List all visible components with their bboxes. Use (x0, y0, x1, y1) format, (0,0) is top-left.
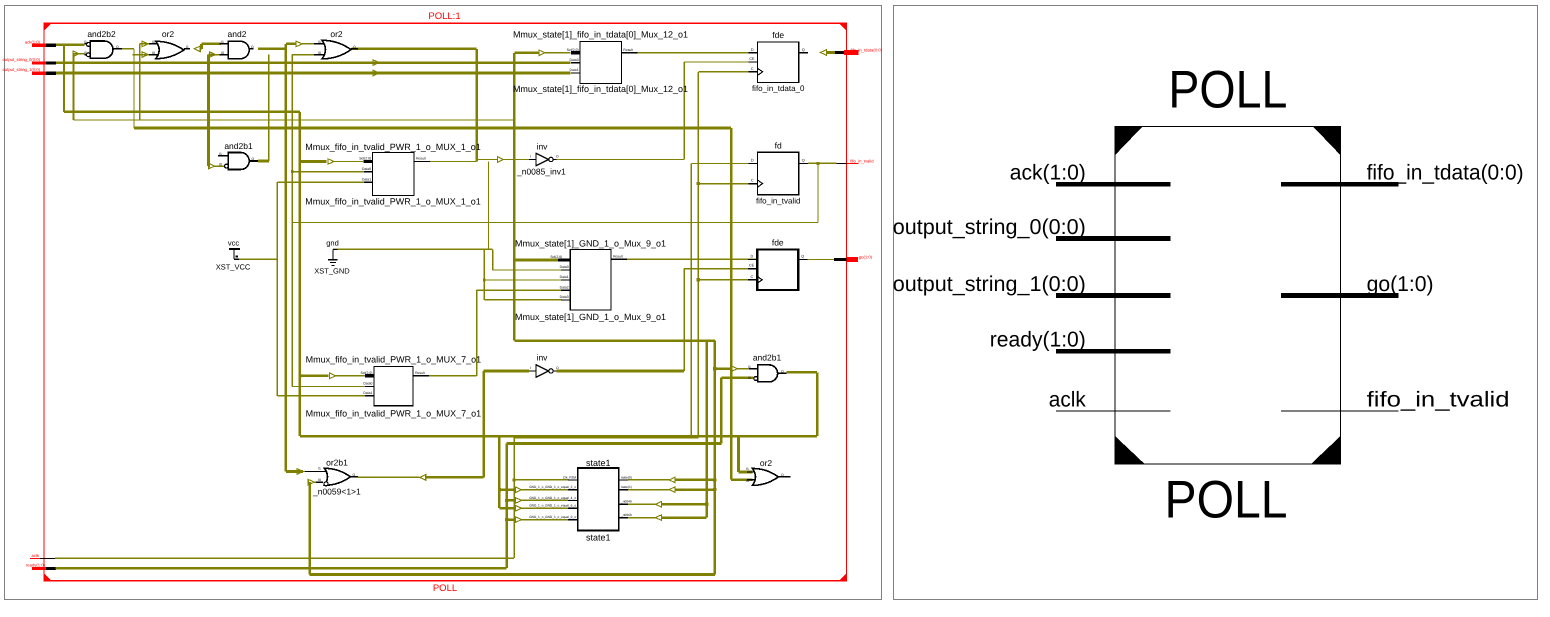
wire (504, 159, 530, 161)
corner notch top-left (1115, 127, 1142, 156)
svg-text:or2: or2 (330, 29, 343, 39)
svg-text:fifo_in_tvalid: fifo_in_tvalid (1367, 387, 1510, 411)
wire (737, 436, 740, 472)
svg-text:I1: I1 (84, 40, 87, 44)
svg-text:Sel(2:0): Sel(2:0) (567, 48, 579, 52)
wire (314, 481, 323, 483)
wire (628, 489, 669, 491)
svg-text:Data0: Data0 (362, 167, 371, 171)
wire (514, 339, 714, 342)
wire (122, 48, 134, 50)
wire (291, 55, 293, 223)
wire (482, 371, 485, 477)
svg-text:I: I (530, 366, 531, 370)
svg-text:Q: Q (802, 159, 805, 163)
wire (638, 52, 758, 54)
wire (292, 171, 363, 173)
svg-text:Mmux_state[1]_fifo_in_tdata[0]: Mmux_state[1]_fifo_in_tdata[0]_Mux_12_o1 (513, 84, 688, 94)
wire (303, 471, 324, 473)
wire (498, 436, 501, 508)
wire (522, 489, 569, 491)
svg-text:aclk: aclk (32, 553, 40, 558)
wire (202, 43, 222, 46)
wire (302, 43, 319, 45)
svg-text:CE: CE (749, 264, 755, 268)
svg-text:Clk_FSM: Clk_FSM (563, 475, 576, 479)
wire (720, 378, 723, 444)
svg-text:I0: I0 (219, 162, 222, 166)
svg-text:Q: Q (801, 255, 804, 259)
svg-text:output_string_1(0:0): output_string_1(0:0) (3, 67, 41, 72)
svg-text:inv: inv (537, 141, 549, 151)
svg-text:_n0059<1>1: _n0059<1>1 (312, 487, 361, 497)
wire or2 out to and2 I1 (194, 46, 200, 52)
svg-text:ready(1:0): ready(1:0) (26, 563, 46, 568)
svg-text:I0: I0 (748, 376, 751, 380)
svg-text:Data0: Data0 (560, 265, 569, 269)
wire (808, 162, 837, 164)
svg-text:Data2: Data2 (560, 285, 569, 289)
mux Mmux_state[1]_fifo_in_tdata[0]_Mux_12_o1 (580, 42, 621, 84)
svg-text:or2: or2 (760, 458, 773, 468)
wire (258, 47, 286, 50)
wire (426, 476, 484, 479)
wire (56, 567, 507, 570)
svg-text:D: D (751, 159, 754, 163)
pin output_string_1(0:0) (1056, 293, 1170, 298)
wire (513, 438, 515, 559)
svg-text:and2b1: and2b1 (224, 141, 253, 151)
wire (134, 127, 731, 130)
svg-text:O: O (556, 366, 559, 370)
fd flip-flop fifo_in_tvalid (758, 152, 799, 194)
wire (662, 516, 707, 519)
wire (308, 482, 311, 574)
svg-text:Mmux_state[1]_GND_1_o_Mux_9_o1: Mmux_state[1]_GND_1_o_Mux_9_o1 (515, 238, 666, 248)
wire (698, 279, 757, 281)
svg-text:aclk: aclk (1049, 387, 1086, 411)
wire (477, 289, 562, 291)
wire (215, 165, 225, 167)
wire (488, 162, 490, 250)
wire (56, 61, 571, 64)
svg-text:or2: or2 (162, 29, 175, 39)
svg-text:I1: I1 (221, 40, 224, 44)
wire (628, 517, 656, 519)
wire (513, 53, 516, 341)
wire (209, 165, 211, 168)
wire (721, 376, 753, 379)
right panel frame (894, 6, 1538, 600)
svg-text:O: O (781, 369, 784, 373)
wire (514, 51, 539, 54)
svg-text:state1: state1 (586, 533, 611, 543)
wire (484, 279, 561, 281)
svg-text:C: C (751, 67, 754, 71)
svg-text:D: D (750, 255, 753, 259)
wire (507, 442, 722, 445)
wire (74, 119, 516, 121)
svg-text:fifo_in_tvalid: fifo_in_tvalid (756, 196, 800, 205)
wire (492, 249, 494, 270)
wire (74, 53, 85, 55)
wire (786, 371, 817, 374)
wire (705, 341, 708, 518)
wire (499, 488, 515, 491)
svg-text:I0: I0 (221, 51, 224, 55)
svg-text:I0: I0 (152, 51, 155, 55)
pin ready(1:0) (1056, 349, 1170, 354)
svg-text:fde: fde (772, 237, 784, 247)
wire (310, 573, 715, 576)
wire (505, 444, 508, 569)
wire (139, 44, 141, 120)
svg-text:fd: fd (775, 140, 782, 150)
wire (292, 222, 818, 224)
wire (730, 128, 733, 480)
wire (698, 183, 757, 185)
corner notch bottom-left (1115, 436, 1145, 464)
wire (557, 159, 685, 161)
wire (268, 55, 270, 161)
wire (276, 182, 278, 396)
wire (358, 476, 420, 478)
wire (292, 386, 365, 388)
POLL block symbol body (1115, 127, 1341, 464)
svg-text:ack(1:0): ack(1:0) (1010, 161, 1086, 185)
wire (207, 55, 210, 167)
svg-text:XST_VCC: XST_VCC (216, 262, 251, 271)
svg-text:Data0: Data0 (570, 58, 579, 62)
svg-text:and2b1: and2b1 (753, 353, 782, 363)
wire (286, 43, 296, 46)
wire (291, 223, 293, 387)
wire (56, 43, 84, 46)
svg-text:Mmux_state[1]_fifo_in_tdata[0]: Mmux_state[1]_fifo_in_tdata[0]_Mux_12_o1 (513, 30, 688, 40)
svg-text:D: D (751, 48, 754, 52)
svg-text:O: O (556, 155, 559, 159)
svg-text:I1: I1 (748, 365, 751, 369)
wire (300, 435, 817, 438)
svg-text:O: O (116, 45, 119, 49)
svg-text:I0: I0 (318, 51, 321, 55)
wire (300, 160, 327, 163)
svg-text:Mmux_fifo_in_tvalid_PWR_1_o_MU: Mmux_fifo_in_tvalid_PWR_1_o_MUX_7_o1 (306, 354, 482, 364)
svg-text:I0: I0 (84, 51, 87, 55)
wire (475, 49, 478, 162)
wire (334, 161, 363, 163)
output port fifo_in_tdata(0:0) (820, 50, 826, 56)
wire (715, 367, 732, 370)
svg-text:Result: Result (416, 157, 426, 161)
svg-text:state1: state1 (586, 458, 611, 468)
pin output_string_0(0:0) (1056, 236, 1170, 241)
svg-text:O: O (186, 45, 189, 49)
svg-text:Result: Result (623, 48, 633, 52)
svg-text:Data1: Data1 (363, 391, 372, 395)
output port fifo_in_tvalid (837, 162, 847, 164)
wire (277, 395, 365, 397)
mux Mmux_fifo_in_tvalid_PWR_1_o_MUX_7_o1 (374, 367, 413, 406)
svg-text:O: O (251, 45, 254, 49)
svg-text:gnd: gnd (326, 239, 339, 248)
corner notch bottom-right (1311, 436, 1341, 464)
wire (627, 258, 757, 260)
wire (684, 61, 758, 63)
svg-text:vcc: vcc (228, 238, 240, 247)
wire (514, 479, 568, 481)
wire (476, 160, 478, 162)
wire (200, 44, 203, 49)
fde flip-flop fifo_in_tdata_0 (758, 42, 799, 83)
svg-text:output_string_1(0:0): output_string_1(0:0) (893, 272, 1086, 296)
svg-text:Data1: Data1 (570, 68, 579, 72)
wire (477, 159, 497, 161)
svg-text:POLL: POLL (1165, 471, 1288, 530)
svg-text:and2b2: and2b2 (87, 29, 116, 39)
wire (484, 299, 561, 301)
svg-text:Q: Q (802, 48, 805, 52)
wire (690, 164, 692, 438)
state1 FSM block (578, 468, 619, 531)
wire (299, 112, 302, 436)
wire (292, 54, 319, 56)
svg-text:POLL:1: POLL:1 (428, 11, 460, 22)
wire (522, 507, 569, 509)
svg-text:O: O (353, 45, 356, 49)
svg-text:GND_1_o_GND_1_o_equal_4_o: GND_1_o_GND_1_o_equal_4_o (529, 496, 576, 500)
wire (798, 259, 834, 261)
svg-text:C: C (750, 275, 753, 279)
output port go(1:0) (834, 258, 847, 261)
svg-text:Mmux_fifo_in_tvalid_PWR_1_o_MU: Mmux_fifo_in_tvalid_PWR_1_o_MUX_7_o1 (306, 409, 482, 419)
wire (300, 374, 329, 377)
left panel frame (5, 6, 882, 600)
wire (413, 375, 477, 377)
wire (683, 62, 685, 160)
wire (499, 507, 515, 510)
wire (514, 437, 698, 439)
svg-text:XST_GND: XST_GND (314, 267, 350, 276)
wire (522, 499, 569, 501)
corner notch top-right (1313, 127, 1340, 156)
wire (64, 111, 300, 114)
pin fifo_in_tvalid (1281, 410, 1399, 412)
sheet border POLL:1 (44, 23, 847, 581)
fde flip-flop go (757, 249, 798, 290)
wire (55, 557, 514, 559)
wire (731, 478, 752, 481)
wire (333, 248, 493, 250)
wire (675, 479, 715, 482)
svg-text:I0: I0 (318, 478, 321, 482)
wire (507, 518, 516, 521)
wire (209, 53, 215, 56)
svg-text:Data1: Data1 (560, 275, 569, 279)
wire (675, 488, 715, 491)
wire (684, 268, 757, 270)
pin aclk (1056, 410, 1170, 412)
svg-text:Mmux_fifo_in_tvalid_PWR_1_o_MU: Mmux_fifo_in_tvalid_PWR_1_o_MUX_1_o1 (305, 142, 481, 152)
wire (545, 52, 571, 54)
svg-text:Data1: Data1 (362, 177, 371, 181)
svg-text:Result: Result (415, 371, 425, 375)
svg-text:I0: I0 (746, 479, 749, 483)
svg-text:output_string_0(0:0): output_string_0(0:0) (3, 57, 41, 62)
wire (737, 368, 757, 370)
svg-text:fde: fde (772, 30, 784, 40)
svg-text:state(1): state(1) (621, 485, 632, 489)
wire (713, 341, 716, 575)
svg-text:GND_1_o_GND_1_o_equal_9_o: GND_1_o_GND_1_o_equal_9_o (529, 515, 576, 519)
svg-text:output_string_0(0:0): output_string_0(0:0) (893, 215, 1086, 239)
wire (132, 54, 149, 56)
svg-text:fifo_in_tdata(0:0): fifo_in_tdata(0:0) (1367, 161, 1524, 185)
svg-text:Data0: Data0 (363, 382, 372, 386)
wire (628, 503, 656, 505)
svg-text:I: I (530, 155, 531, 159)
svg-text:CE: CE (749, 57, 755, 61)
wire (507, 499, 516, 502)
wire (56, 72, 571, 75)
wire (691, 163, 757, 165)
svg-text:GND_1_o_GND_1_o_equal_6_o: GND_1_o_GND_1_o_equal_6_o (529, 504, 576, 508)
svg-text:POLL: POLL (1168, 61, 1287, 120)
svg-text:_n0049: _n0049 (620, 500, 632, 504)
pin go(1:0) (1281, 293, 1399, 298)
wire (739, 471, 753, 474)
wire (697, 72, 699, 438)
wire (698, 71, 757, 73)
svg-text:and2: and2 (228, 29, 247, 39)
svg-text:inv: inv (537, 352, 549, 362)
svg-text:state(0): state(0) (621, 475, 632, 479)
mux Mmux_state[1]_GND_1_o_Mux_9_o1 (570, 250, 611, 311)
wire (336, 375, 365, 377)
svg-text:I1: I1 (318, 467, 321, 471)
svg-text:or2b1: or2b1 (326, 458, 348, 468)
wire (484, 370, 529, 373)
svg-text:Sel(2:0): Sel(2:0) (550, 255, 562, 259)
svg-text:go(1:0): go(1:0) (859, 255, 873, 260)
wire (239, 258, 277, 260)
svg-text:I1: I1 (746, 467, 749, 471)
mux Mmux_fifo_in_tvalid_PWR_1_o_MUX_1_o1 (373, 152, 415, 195)
wire (216, 54, 222, 56)
svg-text:Mmux_fifo_in_tvalid_PWR_1_o_MU: Mmux_fifo_in_tvalid_PWR_1_o_MUX_1_o1 (305, 197, 481, 207)
wire (73, 54, 75, 120)
wire (285, 44, 288, 472)
wire (133, 49, 135, 128)
wire (483, 249, 485, 300)
svg-text:I1: I1 (318, 40, 321, 44)
svg-text:Sel(2:0): Sel(2:0) (359, 157, 371, 161)
wire (628, 479, 669, 481)
wire (522, 519, 569, 521)
wire (63, 45, 65, 112)
svg-text:Sel(2:0): Sel(2:0) (361, 371, 373, 375)
wire (476, 290, 478, 376)
svg-text:GND_1_o_GND_1_o_equal_2_o: GND_1_o_GND_1_o_equal_2_o (529, 485, 576, 489)
svg-text:Data3: Data3 (560, 295, 569, 299)
svg-text:I1: I1 (219, 152, 222, 156)
wire (200, 47, 201, 50)
wire (557, 370, 685, 373)
wire (277, 181, 363, 183)
svg-text:go(1:0): go(1:0) (1367, 272, 1434, 296)
svg-text:Mmux_state[1]_GND_1_o_Mux_9_o1: Mmux_state[1]_GND_1_o_Mux_9_o1 (515, 312, 666, 322)
svg-text:O: O (252, 157, 255, 161)
svg-text:C: C (751, 179, 754, 183)
wire (493, 269, 562, 271)
pin fifo_in_tdata(0:0) (1281, 182, 1399, 187)
pin ack(1:0) (1056, 182, 1170, 187)
svg-text:Result: Result (613, 254, 623, 258)
svg-text:I1: I1 (152, 40, 155, 44)
wire (352, 47, 477, 50)
svg-text:O: O (781, 473, 784, 477)
wire (286, 470, 303, 473)
wire (514, 259, 558, 262)
wire (258, 160, 269, 163)
wire (662, 503, 707, 506)
wire (816, 372, 819, 436)
svg-text:O: O (353, 473, 356, 477)
wire (140, 43, 149, 45)
svg-text:fifo_in_tdata_0: fifo_in_tdata_0 (752, 84, 805, 93)
wire (683, 269, 685, 371)
svg-text:_n0060: _n0060 (620, 513, 632, 517)
svg-text:_n0085_inv1: _n0085_inv1 (516, 166, 566, 176)
wire (817, 163, 819, 222)
svg-text:fifo_in_tvalid: fifo_in_tvalid (850, 158, 874, 163)
svg-text:POLL: POLL (433, 583, 457, 594)
svg-text:fifo_in_tdata(0:0): fifo_in_tdata(0:0) (851, 47, 883, 52)
wire (414, 161, 477, 163)
svg-text:ready(1:0): ready(1:0) (990, 328, 1086, 352)
